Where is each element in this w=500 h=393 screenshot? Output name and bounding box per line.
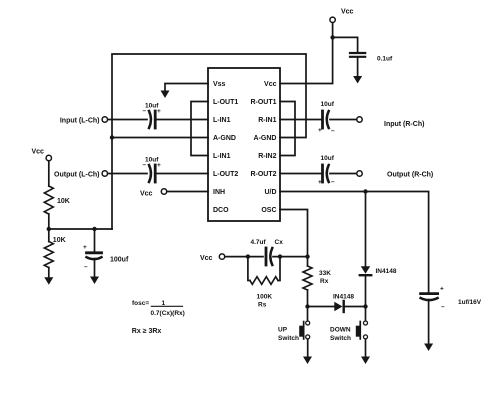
svg-text:INH: INH xyxy=(213,189,225,196)
capacitor Cx 4.7uf xyxy=(265,248,268,265)
svg-text:Vss: Vss xyxy=(213,81,226,88)
svg-text:Rx ≥ 3Rx: Rx ≥ 3Rx xyxy=(132,328,162,335)
svg-text:–: – xyxy=(441,304,445,311)
power Vcc left terminal xyxy=(46,155,51,160)
svg-text:U/D: U/D xyxy=(264,189,276,196)
svg-text:Vcc: Vcc xyxy=(32,149,45,156)
resistor Rx 33K xyxy=(303,266,312,290)
ground UP switch xyxy=(303,357,312,365)
wire diode D1 to down node xyxy=(345,306,366,308)
wire DOWN switch to ground xyxy=(365,339,367,357)
wire R-OUT1 to R-IN2 feedback loop xyxy=(280,102,295,156)
capacitor C2 10uf xyxy=(149,165,151,182)
ground 100uf xyxy=(90,277,99,285)
svg-text:DCO: DCO xyxy=(213,207,229,214)
node Input (R-Ch) terminal xyxy=(357,117,362,122)
wire Vcc to INH xyxy=(167,191,208,193)
wire bias rail xyxy=(49,228,112,230)
svg-text:Cx: Cx xyxy=(275,239,284,246)
wire R-OUT2 to capacitor xyxy=(280,173,321,175)
wire Vcc to R1 xyxy=(48,161,50,186)
wire OSC node to Rx xyxy=(307,257,309,266)
svg-text:A-GND: A-GND xyxy=(213,135,236,142)
svg-text:–: – xyxy=(143,108,147,115)
ground Vss xyxy=(161,91,170,99)
svg-text:1uf/16V: 1uf/16V xyxy=(458,299,482,306)
capacitor C5 100uf xyxy=(87,251,102,254)
resistor R2 10K xyxy=(44,242,53,268)
svg-text:Rx: Rx xyxy=(320,278,329,285)
wire R1 to divider node xyxy=(48,214,50,229)
svg-text:100uf: 100uf xyxy=(110,257,129,264)
capacitor C3 10uf xyxy=(321,111,324,128)
svg-text:L-IN1: L-IN1 xyxy=(213,117,231,124)
switch DOWN xyxy=(364,321,368,325)
power Vcc oscillator terminal xyxy=(219,254,224,259)
wire capacitor to Input R terminal xyxy=(330,119,356,121)
wire junction to 0.1uf xyxy=(333,37,358,52)
wire Vcc to Cx xyxy=(225,256,263,258)
svg-text:Rs: Rs xyxy=(258,302,267,309)
svg-text:+: + xyxy=(318,179,322,186)
svg-text:+: + xyxy=(440,286,444,293)
power Vcc INH terminal xyxy=(161,189,166,194)
node divider junction xyxy=(47,227,51,231)
node Cx left junction xyxy=(246,254,250,258)
svg-text:DOWN: DOWN xyxy=(330,326,351,333)
wire 0.1uf to ground xyxy=(357,58,359,77)
ground R2 xyxy=(44,277,53,285)
capacitor C1 10uf xyxy=(149,111,151,128)
svg-text:4.7uf: 4.7uf xyxy=(251,239,267,246)
capacitor C4 10uf xyxy=(321,165,324,182)
svg-text:Input (R-Ch): Input (R-Ch) xyxy=(384,121,424,128)
wire capacitor to L-OUT2 xyxy=(157,173,208,175)
ground DOWN switch xyxy=(361,357,370,365)
svg-text:–: – xyxy=(84,264,88,271)
node down junction xyxy=(363,304,367,308)
node up junction xyxy=(305,304,309,308)
wire up node to diode D1 xyxy=(308,306,335,308)
svg-text:10uf: 10uf xyxy=(321,101,335,108)
svg-text:R-IN2: R-IN2 xyxy=(258,153,276,160)
wire junction to 100uf xyxy=(94,229,96,252)
svg-text:–: – xyxy=(331,179,335,186)
node Vcc decoupling junction xyxy=(330,35,334,39)
wire Rx to up node xyxy=(307,290,309,307)
diode D1 IN4148 xyxy=(334,302,342,311)
svg-text:A-GND: A-GND xyxy=(254,135,277,142)
svg-text:10K: 10K xyxy=(57,198,70,205)
node Input (L-Ch) terminal xyxy=(102,117,107,122)
wire divider to R2 and ground xyxy=(48,229,50,242)
svg-text:Vcc: Vcc xyxy=(140,191,153,198)
svg-text:–: – xyxy=(331,127,335,134)
node U/D junction xyxy=(363,189,367,193)
wire 100uf to ground xyxy=(94,259,96,278)
svg-text:R-IN1: R-IN1 xyxy=(258,117,276,124)
svg-text:Input (L-Ch): Input (L-Ch) xyxy=(60,117,100,124)
power Vcc top terminal xyxy=(330,17,335,22)
wire Vss pin to ground xyxy=(165,84,208,92)
wire Cx to OSC node xyxy=(273,256,308,258)
wire Vcc top rail xyxy=(280,23,333,84)
capacitor C7 0.1uf xyxy=(350,52,365,54)
wire U/D line xyxy=(280,192,429,293)
svg-text:100K: 100K xyxy=(257,294,273,301)
svg-text:10K: 10K xyxy=(53,237,66,244)
svg-text:+: + xyxy=(83,244,87,251)
svg-text:UP: UP xyxy=(278,326,288,333)
wire L-OUT1 to L-IN1(2) feedback loop xyxy=(191,102,208,156)
svg-text:Switch: Switch xyxy=(278,335,299,342)
wire Output L to capacitor xyxy=(108,173,147,175)
svg-text:10uf: 10uf xyxy=(321,155,335,162)
wire U/D junction to diode D2 xyxy=(365,192,367,267)
resistor R1 10K xyxy=(44,186,53,214)
svg-text:Vcc: Vcc xyxy=(264,81,277,88)
svg-text:L-OUT2: L-OUT2 xyxy=(213,171,238,178)
node Output (R-Ch) terminal xyxy=(357,171,362,176)
svg-text:+: + xyxy=(318,127,322,134)
svg-text:fosc=: fosc= xyxy=(132,300,149,307)
node 100uf junction xyxy=(92,227,96,231)
svg-text:IN4148: IN4148 xyxy=(333,293,354,300)
svg-text:L-IN1: L-IN1 xyxy=(213,153,231,160)
svg-text:33K: 33K xyxy=(319,270,331,277)
svg-text:OSC: OSC xyxy=(261,207,276,214)
svg-text:0.7(Cx)(Rx): 0.7(Cx)(Rx) xyxy=(151,310,185,317)
svg-text:Vcc: Vcc xyxy=(200,255,213,262)
svg-text:Switch: Switch xyxy=(330,335,351,342)
resistor Rs 100K xyxy=(250,277,278,285)
wire 1uf to ground xyxy=(428,300,430,345)
svg-text:0.1uf: 0.1uf xyxy=(377,56,393,63)
wire R-IN1 to capacitor xyxy=(280,119,321,121)
resistor Rs 100K legs xyxy=(248,257,250,281)
wire A-GND bias loop top xyxy=(112,54,306,229)
op-amp U1 (IC body) xyxy=(208,68,280,221)
svg-text:Output (L-Ch): Output (L-Ch) xyxy=(54,171,99,178)
capacitor C6 1uf/16V xyxy=(421,292,438,295)
svg-text:+: + xyxy=(157,162,161,169)
svg-text:R-OUT2: R-OUT2 xyxy=(250,171,276,178)
svg-text:L-OUT1: L-OUT1 xyxy=(213,99,238,106)
svg-text:Vcc: Vcc xyxy=(341,9,354,16)
switch UP xyxy=(306,321,310,325)
wire capacitor to Output R terminal xyxy=(330,173,356,175)
ground 0.1uf xyxy=(353,76,362,84)
svg-text:–: – xyxy=(143,162,147,169)
wire Input L to capacitor xyxy=(108,119,147,121)
node Output (L-Ch) terminal xyxy=(102,171,107,176)
svg-text:IN4148: IN4148 xyxy=(376,268,397,275)
diode D2 IN4148 xyxy=(361,266,370,274)
wire down node to switch xyxy=(365,307,367,321)
wire capacitor to L-IN1 xyxy=(157,119,208,121)
wire A-GND left tap xyxy=(112,137,208,139)
ground 1uf xyxy=(424,344,433,352)
node OSC junction xyxy=(305,254,309,258)
svg-text:R-OUT1: R-OUT1 xyxy=(250,99,276,106)
svg-text:Output (R-Ch): Output (R-Ch) xyxy=(387,171,433,178)
wire up node to switch xyxy=(307,307,309,321)
node A-GND tap junction xyxy=(110,135,114,139)
node Cx right junction xyxy=(278,254,282,258)
wire UP switch to ground xyxy=(307,339,309,357)
wire diode D2 to down node xyxy=(365,276,367,306)
svg-text:+: + xyxy=(157,108,161,115)
wire OSC pin down xyxy=(280,210,308,257)
